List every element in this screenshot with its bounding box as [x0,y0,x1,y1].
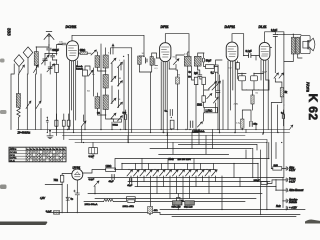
IF transformer 2 secondary (hatched) [194,56,201,66]
svg-text:2µF: 2µF [194,73,199,75]
top cap wire DCH11 [72,35,144,56]
IF transformer 1 secondary (hatched) [150,57,154,66]
resistor R1 (grid leak) [55,64,59,72]
tone switch contact 1 [274,73,278,78]
wire (IF1) [139,53,156,72]
scan artifact (bottom left bar) [0,222,47,226]
antenna [44,32,54,46]
svg-text:DCH11: DCH11 [66,25,77,29]
tube DCH11 [67,41,79,61]
wire (bottom left rail) [47,198,160,213]
tube DL11 [259,42,270,60]
wire (DCH11 pins) [70,61,78,133]
svg-text:DL11: DL11 [259,25,267,29]
svg-text:40µF: 40µF [262,72,268,74]
wire [215,90,217,112]
capacitor 40uF (reservoir) [130,179,132,184]
wire [155,58,160,65]
scan artifact (left edge blob 1) [0,59,5,63]
switch contact (band osc 3) [111,76,116,81]
junction dots on buses [67,129,279,135]
svg-text:120Ω: 120Ω [106,165,112,168]
wire [94,186,96,193]
switch contact (band osc 1) [111,58,116,63]
wire [242,110,283,130]
output transformer secondary (hatched) [296,37,300,54]
wire [238,74,269,91]
resistor 75Ohm [60,175,63,182]
wire (switch bank droppers) [131,176,216,207]
volume potentiometer (arrow) [209,81,217,89]
capacitor 30pF (antenna series) [47,45,52,54]
IF transformer 1 primary (hatched) [138,56,142,64]
svg-text:40µF: 40µF [127,185,133,187]
svg-text:Dosen: Dosen [289,179,296,181]
svg-text:2b: 2b [36,149,38,151]
bus line E [75,142,267,144]
bus segment F [250,148,252,150]
svg-text:110 150 220V: 110 150 220V [178,159,192,161]
wire (switch verticals) [112,55,128,143]
resistor (right feed, hatched) [241,119,244,128]
svg-text:50pF: 50pF [206,59,212,62]
junction dots (bus crossings) [36,34,294,216]
wire [92,143,94,159]
wire [267,180,286,184]
capacitor 25uF [250,122,252,127]
svg-text:6Ω: 6Ω [87,91,90,93]
switch contact (band osc 2) [118,62,123,67]
wire (power horizontals) [84,178,305,217]
wire (DL11 pins) [261,48,272,135]
wire (bus interconnects) [128,130,246,143]
wire [17,74,28,130]
switch contact (band osc 4) [118,81,123,86]
svg-text:DL11: DL11 [10,161,16,163]
tone switch contact 2 [279,73,283,78]
capacitor 40uF (smoothing) [112,175,114,180]
capacitor 2uF (AF coupling) [198,75,202,77]
resistor (detector load, boxed) [205,65,214,69]
scan artifact (left edge blob 3) [0,185,7,190]
scan artifact (left edge blob 2) [0,110,7,114]
valve socket table [9,147,66,162]
filament resistor 3 [67,120,70,126]
capacitor 0.1uF (output stage) [282,115,284,119]
svg-text:75Ω: 75Ω [54,179,59,182]
capacitor (screen bypass) [190,121,193,128]
svg-text:1b: 1b [30,149,32,151]
wire [271,168,286,170]
capacitor 0.1 (mid, near DF) [170,110,172,116]
resistor 1.5kOhm (boxed) [204,107,217,112]
wire (speaker top feed) [277,34,301,105]
resistor 120Ohm [106,168,116,172]
frame aerial coil (diamond, left) [14,55,24,74]
svg-text:Anoden-: Anoden- [288,198,298,201]
wire [36,47,49,74]
wire [283,200,286,202]
switch contact (gram) [207,94,212,99]
capacitor 0.1uF (mains filter) [54,211,60,215]
terminal Akku Element [286,188,287,192]
wire [275,78,282,87]
filament resistor 1 [55,120,58,126]
wire (DAF11 pins) [228,61,238,133]
svg-text:40kΩ: 40kΩ [80,49,86,52]
switch contact (osc pad 2) [118,116,123,121]
wire (right-bottom verticals) [222,130,283,215]
wire [200,77,209,96]
svg-text:6b: 6b [63,149,65,151]
oscillator coil stack (hatched, top) [103,55,108,68]
wire [284,54,302,62]
coil L1 (input, hatched) [34,52,38,66]
svg-text:Akku-Element: Akku-Element [288,189,304,192]
oscillator coil stack (hatched, middle) [103,75,108,89]
wire [85,66,90,130]
electrolytic capacitor block 1 [239,76,246,81]
svg-text:K 62: K 62 [306,94,320,121]
svg-text:5b: 5b [56,149,58,151]
junction [48,53,49,54]
svg-text:333: 333 [7,28,12,36]
resistor 4Ohm [177,197,180,203]
switch contact (heater) [94,181,99,186]
output transformer primary (hatched) [291,37,295,54]
wire (IF2) [188,52,204,75]
svg-text:3b: 3b [43,149,45,151]
oscillator coil stack (hatched, bottom) [103,95,108,110]
top cap wire DF11 [165,34,189,56]
resistor 40Ohm [148,207,153,214]
scan artifact (bottom right mark) [305,220,320,224]
svg-text:2MΩ: 2MΩ [234,104,239,106]
bus line C [63,135,246,137]
switch contact (waveband, left) [20,65,25,73]
svg-text:90/94-L40: 90/94-L40 [172,207,182,209]
switch contact (band osc 5) [111,98,116,103]
svg-text:4b: 4b [50,149,52,151]
terminal Dosen 6-12V [286,178,287,182]
switch contact (band, lower 1) [26,101,31,109]
switch contact (osc) [91,50,96,55]
svg-text:400pF: 400pF [52,49,59,52]
svg-text:0,1µF: 0,1µF [89,179,95,181]
svg-text:= +U2V: = +U2V [289,208,297,210]
switch contact (mid) [198,122,203,127]
resistor (screen feed) [170,120,174,129]
padding capacitor block [83,70,88,76]
wire [169,55,184,69]
battery box 2 (filament battery) [185,201,195,205]
wire (left edge vertical) [11,64,14,130]
trimmer capacitor (IF1) [146,58,147,63]
wire [216,60,223,133]
junction dots (switch bank tops) [128,169,207,170]
junction [105,70,106,71]
svg-text:68kΩ: 68kΩ [113,124,119,126]
resistor 9:30 (charge) [273,167,282,170]
IF transformer 2 primary (hatched) [184,56,191,66]
coil L2 (oscillator padder, hatched) [16,94,20,108]
wire [237,69,239,79]
wire (contact risers) [136,159,214,170]
svg-text:1M: 1M [177,75,180,77]
loudspeaker [301,36,311,54]
resistor 200Ohm 400mA (barretter zigzag) [104,199,114,201]
tube DAF11 [226,42,238,61]
svg-text:40Ω: 40Ω [154,210,158,212]
wire (filament network) [56,114,83,143]
wire (detector verticals) [192,66,199,129]
capacitor 0.1uF (mains, near table) [89,148,98,154]
diode 5u [66,197,69,200]
switch contact (pad) [89,70,93,76]
capacitor (AVC bypass) [216,91,220,93]
electrolytic capacitor block 2 [251,76,258,81]
bus line D [69,140,267,143]
svg-text:1,5kΩ: 1,5kΩ [205,109,212,113]
switch contact (band osc 6) [118,102,123,107]
capacitor 2000uF (+) [74,190,80,198]
wire [244,56,260,61]
tube UY11 (rectifier) [72,169,83,180]
svg-text:200Ω 400mA: 200Ω 400mA [85,203,98,206]
potentiometer arrow (regen) [212,81,220,90]
svg-text:0.1µF: 0.1µF [246,50,253,53]
wire (right mid verticals) [269,105,284,178]
wire (DF11 pins) [161,62,169,136]
capacitor 200uF [261,182,267,185]
resistor (diode load) [202,77,206,84]
capacitor (mixer grid) [58,43,66,45]
switch contact (aerial) [34,65,39,73]
wire [45,54,57,57]
svg-text:0,5µ: 0,5µ [236,123,241,125]
wire (bus to mains droppers) [151,72,213,154]
svg-text:DF11: DF11 [161,25,169,29]
wire [36,74,42,130]
battery box 1 (anode battery) [173,201,183,205]
resistor (anode load) [236,63,239,70]
terminal Anoden Batterie [286,199,287,203]
terminal Heiz +U2V [286,206,287,210]
filament dropper capacitor [46,117,48,133]
junction [217,73,218,74]
switch contact (IF gain) [174,59,179,65]
svg-text:200µF: 200µF [254,180,261,182]
svg-text:6-12V: 6-12V [289,181,296,183]
terminal Akku 6-12V [286,167,287,171]
resistor (step 130 ohm) [128,200,135,203]
svg-text:0,1µF: 0,1µF [271,29,278,32]
resistor (DL cathode) [251,95,254,104]
top cap wire DAF11 [232,34,244,56]
capacitor 0.1uF (to DL11 grid) [249,54,251,58]
frame aerial coil (diamond, right) [23,47,33,74]
trimmer capacitor (tuning, with arrow) [42,55,49,64]
resistor 1MOhm (AGC) [176,77,180,84]
trimmer capacitor 2 (with arrow) [47,64,54,72]
junction [241,73,242,74]
switch contact (pickup) [214,97,219,103]
wire (power top lines) [115,144,269,169]
switch contact (osc pad 1) [111,113,116,118]
svg-text:130Ω +65Ω: 130Ω +65Ω [123,206,135,208]
svg-text:40µF: 40µF [109,181,115,183]
svg-text:0,1µF: 0,1µF [89,156,95,158]
wire [53,45,62,130]
svg-text:DAF11: DAF11 [225,25,236,29]
wire (UY11 to bottom) [77,170,105,194]
bus line A (+HT) [17,125,293,130]
capacitor 100pF (grid) [51,54,55,61]
capacitor 500pF (osc pad cluster) [125,115,127,120]
wire [149,214,151,215]
svg-text:6-12V: 6-12V [289,170,296,172]
svg-text:Akku: Akku [288,166,295,169]
switch contact (band, lower 2) [36,101,41,109]
small value labels (scattered) [59,42,268,125]
top cap wire DL11 [265,32,284,43]
wire [176,70,178,130]
wire [45,54,50,75]
junction [77,212,78,213]
wire [198,53,218,91]
svg-text:DF11: DF11 [10,155,16,157]
resistor 40kOhm (osc grid) [80,52,87,55]
filament resistor 2 [62,120,65,126]
svg-text:Nora: Nora [306,82,311,92]
resistor (DAF grid stopper) [215,65,219,72]
wire (osc coils) [94,44,132,133]
svg-text:Zf=468kHz: Zf=468kHz [17,131,31,135]
wire [276,187,286,191]
svg-text:Röhre: Röhre [10,148,17,151]
capacitor 0.1uF (tone) [273,35,277,73]
tube DF11 [160,43,171,62]
svg-text:M: M [119,78,121,80]
svg-text:DCH11: DCH11 [10,152,18,154]
wire [177,194,179,210]
wire [45,174,72,213]
svg-text:DAF11: DAF11 [10,157,17,160]
switch contact (filament) [82,121,86,126]
resistor 68kOhm (boxed) [114,119,122,122]
svg-text:Batterie: Batterie [289,201,298,204]
wire [112,110,126,130]
wire [204,92,218,129]
svg-text:4,5V: 4,5V [40,197,45,200]
ground (IF bus) [49,130,51,132]
svg-text:3Ω: 3Ω [97,113,100,115]
resistor 5kOhm (tone) [280,88,283,97]
resistor (AF filter) [194,77,198,84]
svg-text:9/0,5-L28: 9/0,5-L28 [184,207,193,209]
wire [78,52,91,54]
coil (osc feedback small top) [95,56,100,68]
mains voltage selector switch bank [127,170,217,176]
wire [116,169,216,171]
svg-text:Netz: Netz [169,157,175,161]
wire [252,90,254,110]
wire [271,97,282,130]
bus line B [52,132,290,134]
coil (osc feedback small bottom) [95,97,100,109]
svg-text:1MΩ: 1MΩ [197,105,202,107]
capacitor 50pF [203,58,205,62]
resistor 1MOhm (grid) [202,96,206,102]
